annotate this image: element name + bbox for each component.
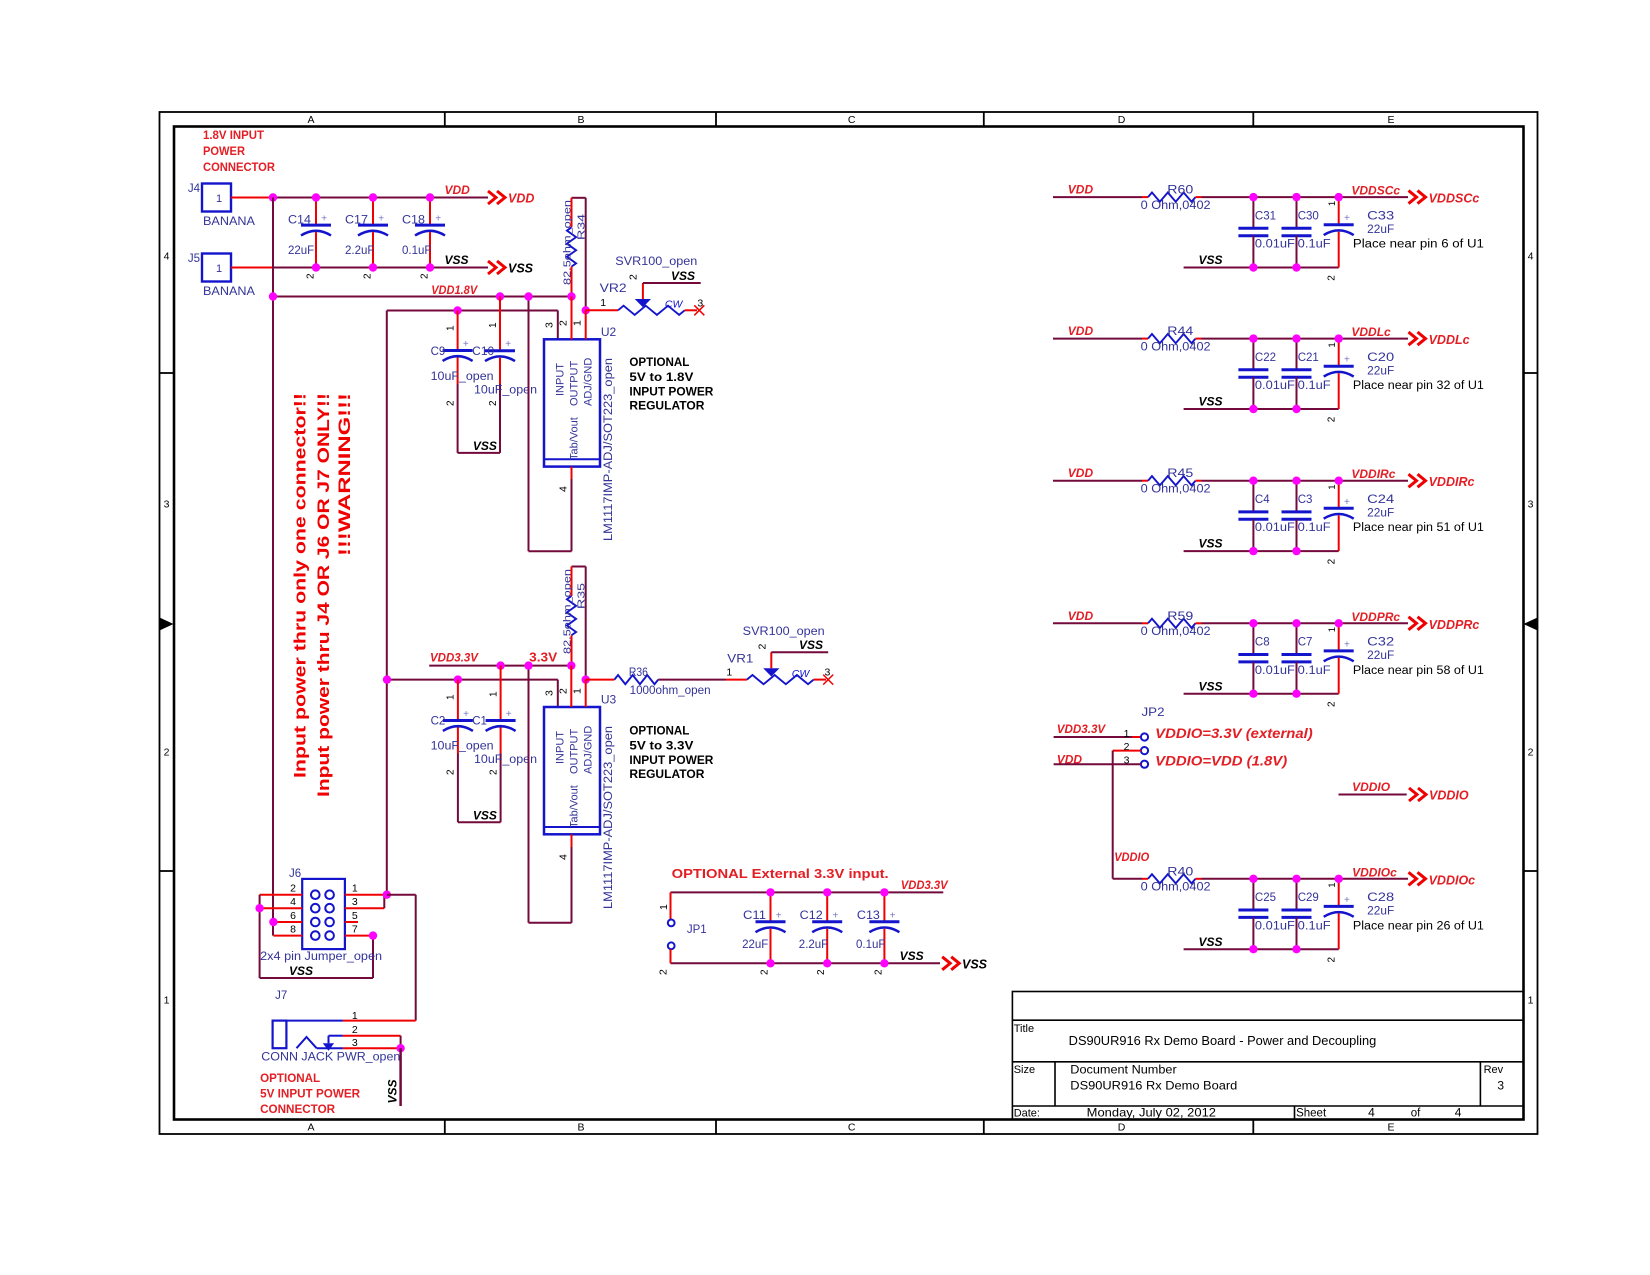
svg-text:Document Number: Document Number [1070, 1065, 1177, 1077]
svg-text:5: 5 [352, 910, 358, 922]
svg-text:1: 1 [352, 1010, 358, 1022]
svg-text:2: 2 [446, 769, 457, 775]
svg-text:1: 1 [726, 667, 732, 679]
svg-text:Rev: Rev [1484, 1064, 1504, 1076]
svg-text:+: + [776, 910, 782, 921]
svg-text:C31: C31 [1255, 210, 1276, 222]
svg-text:VR2: VR2 [600, 281, 627, 295]
svg-text:C11: C11 [743, 910, 766, 922]
svg-text:VDD: VDD [1068, 466, 1094, 480]
svg-text:1: 1 [1327, 201, 1338, 206]
svg-text:22uF: 22uF [1367, 365, 1394, 377]
svg-text:C12: C12 [800, 910, 823, 922]
svg-text:+: + [890, 910, 896, 921]
svg-text:82.5ohm_open: 82.5ohm_open [562, 569, 574, 654]
svg-text:0.01uF: 0.01uF [1255, 239, 1295, 251]
svg-text:B: B [577, 114, 584, 126]
svg-text:1: 1 [600, 297, 606, 309]
svg-text:SVR100_open: SVR100_open [615, 256, 697, 268]
svg-text:10uF_open: 10uF_open [431, 371, 494, 383]
svg-text:VDD3.3V: VDD3.3V [901, 878, 949, 892]
svg-text:1: 1 [1124, 728, 1130, 740]
svg-text:+: + [463, 709, 469, 720]
svg-text:2: 2 [488, 400, 499, 406]
svg-text:INPUT POWER: INPUT POWER [629, 387, 714, 399]
svg-text:VDDPRc: VDDPRc [1429, 618, 1480, 632]
svg-text:2x4 pin Jumper_open: 2x4 pin Jumper_open [260, 951, 382, 963]
svg-text:1.8V INPUT: 1.8V INPUT [203, 128, 265, 142]
svg-text:2.2uF: 2.2uF [799, 939, 828, 951]
svg-text:4: 4 [1455, 1106, 1462, 1120]
svg-text:Sheet: Sheet [1296, 1108, 1327, 1120]
svg-text:C32: C32 [1367, 637, 1394, 649]
svg-text:A: A [307, 114, 314, 126]
svg-text:!!!WARNING!!!: !!!WARNING!!! [336, 393, 354, 556]
svg-text:VDD: VDD [1068, 183, 1094, 197]
svg-text:22uF: 22uF [1367, 224, 1394, 236]
svg-text:VSS: VSS [799, 638, 823, 652]
svg-text:2: 2 [1528, 747, 1534, 759]
svg-text:VDDPRc: VDDPRc [1351, 610, 1400, 624]
svg-text:CONN JACK PWR_open: CONN JACK PWR_open [261, 1052, 400, 1064]
svg-text:1: 1 [1327, 627, 1338, 632]
svg-text:ADJ/GND: ADJ/GND [583, 358, 595, 406]
svg-text:0 Ohm,0402: 0 Ohm,0402 [1141, 341, 1211, 353]
svg-text:+: + [1344, 213, 1350, 224]
svg-text:5V to 3.3V: 5V to 3.3V [629, 741, 693, 753]
svg-text:VSS: VSS [1199, 679, 1223, 693]
svg-text:Input power thru J4 OR J6 OR J: Input power thru J4 OR J6 OR J7 ONLY!! [315, 393, 333, 797]
svg-text:U3: U3 [601, 693, 617, 707]
svg-text:VDD3.3V: VDD3.3V [430, 651, 479, 665]
svg-text:0.1uF: 0.1uF [856, 939, 885, 951]
svg-text:3: 3 [164, 499, 170, 511]
svg-text:OUTPUT: OUTPUT [569, 729, 581, 775]
svg-text:Place near pin 26 of U1: Place near pin 26 of U1 [1353, 920, 1484, 932]
svg-text:REGULATOR: REGULATOR [629, 401, 705, 413]
svg-text:VSS: VSS [473, 809, 497, 823]
svg-text:R34: R34 [576, 214, 588, 240]
svg-text:VDDIOc: VDDIOc [1352, 865, 1397, 879]
svg-text:C7: C7 [1298, 637, 1313, 649]
svg-text:C9: C9 [431, 346, 446, 358]
svg-text:+: + [321, 214, 327, 225]
svg-text:1: 1 [572, 320, 584, 326]
svg-text:Tab/Vout: Tab/Vout [569, 785, 581, 828]
svg-text:B: B [577, 1122, 584, 1134]
svg-text:0.1uF: 0.1uF [1298, 239, 1331, 251]
svg-text:2: 2 [1327, 275, 1338, 281]
svg-text:0.01uF: 0.01uF [1255, 665, 1295, 677]
svg-text:VDDLc: VDDLc [1429, 333, 1470, 347]
svg-text:2: 2 [352, 1024, 358, 1036]
svg-text:Date:: Date: [1014, 1108, 1040, 1120]
svg-text:C10: C10 [472, 346, 494, 358]
svg-text:OPTIONAL: OPTIONAL [629, 357, 689, 369]
svg-text:+: + [1344, 639, 1350, 650]
svg-text:C29: C29 [1298, 892, 1319, 904]
svg-text:C2: C2 [431, 716, 446, 728]
svg-text:J6: J6 [289, 868, 301, 880]
svg-text:VSS: VSS [1199, 935, 1223, 949]
svg-text:2: 2 [306, 273, 317, 279]
svg-text:C14: C14 [288, 215, 312, 227]
svg-text:1: 1 [164, 995, 170, 1007]
svg-text:VDDIO: VDDIO [1114, 850, 1150, 864]
svg-text:VDD1.8V: VDD1.8V [431, 283, 478, 297]
svg-text:Title: Title [1014, 1023, 1034, 1035]
svg-text:SVR100_open: SVR100_open [743, 626, 825, 638]
svg-text:D: D [1118, 114, 1126, 126]
svg-text:VSS: VSS [289, 964, 313, 978]
svg-text:INPUT: INPUT [555, 363, 567, 396]
svg-text:3: 3 [1528, 499, 1534, 511]
svg-text:+: + [463, 339, 469, 350]
svg-text:7: 7 [352, 923, 358, 935]
svg-text:BANANA: BANANA [203, 286, 255, 298]
svg-text:VDD: VDD [508, 192, 534, 206]
svg-text:VSS: VSS [962, 958, 988, 972]
svg-text:2: 2 [873, 969, 884, 975]
svg-text:OPTIONAL External 3.3V input.: OPTIONAL External 3.3V input. [672, 866, 889, 881]
svg-text:Size: Size [1014, 1064, 1035, 1076]
svg-text:VDDSCc: VDDSCc [1351, 184, 1400, 198]
svg-text:CW: CW [792, 668, 811, 680]
svg-text:VSS: VSS [900, 949, 924, 963]
svg-text:VSS: VSS [671, 269, 695, 283]
svg-text:VSS: VSS [508, 262, 534, 276]
svg-text:VDDIOc: VDDIOc [1429, 873, 1476, 887]
svg-text:0 Ohm,0402: 0 Ohm,0402 [1141, 882, 1211, 894]
svg-text:C28: C28 [1367, 892, 1394, 904]
svg-text:of: of [1411, 1108, 1421, 1120]
svg-text:+: + [506, 709, 512, 720]
svg-text:Place near pin 6 of U1: Place near pin 6 of U1 [1353, 239, 1484, 251]
svg-text:C13: C13 [857, 910, 880, 922]
svg-text:8: 8 [290, 923, 296, 935]
svg-text:+: + [505, 339, 511, 350]
svg-text:2: 2 [1124, 741, 1130, 753]
svg-text:0.01uF: 0.01uF [1255, 522, 1295, 534]
svg-text:0.1uF: 0.1uF [1298, 522, 1331, 534]
svg-text:0.01uF: 0.01uF [1255, 920, 1295, 932]
svg-text:82.5ohm_open: 82.5ohm_open [562, 200, 574, 285]
svg-text:+: + [1344, 895, 1350, 906]
svg-text:INPUT POWER: INPUT POWER [629, 755, 714, 767]
svg-text:VDDLc: VDDLc [1351, 325, 1391, 339]
svg-text:J5: J5 [188, 253, 200, 265]
svg-text:VDDIRc: VDDIRc [1351, 467, 1395, 481]
svg-text:VSS: VSS [386, 1079, 400, 1103]
svg-text:C25: C25 [1255, 892, 1276, 904]
svg-text:OUTPUT: OUTPUT [569, 361, 581, 407]
svg-text:VDDIO=3.3V (external): VDDIO=3.3V (external) [1155, 726, 1313, 741]
svg-text:C20: C20 [1367, 352, 1394, 364]
svg-text:VSS: VSS [1199, 537, 1223, 551]
svg-text:1: 1 [658, 904, 670, 910]
svg-text:+: + [1344, 355, 1350, 366]
svg-text:VDDIO: VDDIO [1352, 780, 1391, 794]
svg-text:2: 2 [816, 969, 827, 975]
svg-text:0.1uF: 0.1uF [1298, 665, 1331, 677]
svg-text:POWER: POWER [203, 144, 245, 158]
svg-text:Place near pin 32 of U1: Place near pin 32 of U1 [1353, 380, 1484, 392]
svg-text:VDD: VDD [445, 183, 471, 197]
svg-text:3: 3 [1124, 755, 1130, 767]
svg-text:Input power thru only one conn: Input power thru only one connector!! [292, 393, 310, 778]
svg-text:0.1uF: 0.1uF [1298, 920, 1331, 932]
svg-text:2: 2 [558, 688, 570, 694]
svg-text:1000ohm_open: 1000ohm_open [630, 685, 711, 697]
svg-text:Place near pin 58 of U1: Place near pin 58 of U1 [1353, 665, 1484, 677]
svg-text:1: 1 [446, 325, 457, 331]
svg-text:R60: R60 [1167, 185, 1193, 197]
svg-text:1: 1 [1327, 484, 1338, 489]
svg-text:C4: C4 [1255, 494, 1270, 506]
svg-text:R35: R35 [576, 583, 588, 609]
svg-text:22uF: 22uF [1367, 508, 1394, 520]
svg-text:2: 2 [628, 274, 640, 280]
svg-text:1: 1 [488, 322, 499, 328]
svg-text:2: 2 [658, 969, 670, 975]
svg-text:BANANA: BANANA [203, 216, 255, 228]
svg-text:2: 2 [489, 769, 500, 775]
svg-text:5V to 1.8V: 5V to 1.8V [629, 372, 693, 384]
svg-text:22uF: 22uF [1367, 650, 1394, 662]
svg-text:C: C [848, 114, 856, 126]
svg-text:VDDIO: VDDIO [1429, 789, 1469, 803]
svg-text:C3: C3 [1298, 494, 1313, 506]
svg-text:4: 4 [1368, 1106, 1375, 1120]
svg-text:22uF: 22uF [742, 939, 768, 951]
svg-text:1: 1 [216, 193, 222, 205]
svg-text:1: 1 [489, 691, 500, 697]
svg-text:1: 1 [352, 883, 358, 895]
svg-text:JP2: JP2 [1142, 707, 1165, 719]
svg-text:2: 2 [164, 747, 170, 759]
svg-text:VDDIO=VDD (1.8V): VDDIO=VDD (1.8V) [1155, 754, 1288, 769]
svg-text:22uF: 22uF [288, 245, 314, 257]
svg-text:10uF_open: 10uF_open [431, 741, 494, 753]
svg-text:3: 3 [352, 1037, 358, 1049]
svg-text:J4: J4 [188, 183, 201, 195]
svg-text:3: 3 [544, 690, 556, 696]
svg-text:JP1: JP1 [687, 924, 707, 936]
svg-text:Place near pin 51 of U1: Place near pin 51 of U1 [1353, 522, 1484, 534]
svg-text:1: 1 [216, 263, 222, 275]
svg-text:DS90UR916 Rx Demo Board: DS90UR916 Rx Demo Board [1070, 1079, 1237, 1093]
svg-text:C30: C30 [1298, 210, 1319, 222]
svg-text:6: 6 [290, 910, 296, 922]
svg-text:2: 2 [558, 320, 570, 326]
svg-text:C24: C24 [1367, 494, 1395, 506]
svg-text:C17: C17 [345, 215, 368, 227]
svg-text:0 Ohm,0402: 0 Ohm,0402 [1141, 484, 1211, 496]
svg-text:1: 1 [1327, 342, 1338, 347]
svg-text:VSS: VSS [1199, 253, 1223, 267]
svg-text:2: 2 [1327, 701, 1338, 707]
svg-text:INPUT: INPUT [555, 731, 567, 764]
svg-text:0.01uF: 0.01uF [1255, 380, 1295, 392]
svg-text:0 Ohm,0402: 0 Ohm,0402 [1141, 626, 1211, 638]
svg-text:1: 1 [446, 694, 457, 700]
svg-text:0.1uF: 0.1uF [1298, 380, 1331, 392]
svg-text:2: 2 [290, 883, 296, 895]
svg-text:VDD: VDD [1068, 324, 1094, 338]
svg-text:4: 4 [558, 486, 570, 492]
svg-text:+: + [378, 214, 384, 225]
svg-text:DS90UR916 Rx Demo Board - Powe: DS90UR916 Rx Demo Board - Power and Deco… [1069, 1034, 1377, 1048]
svg-text:OPTIONAL: OPTIONAL [260, 1071, 320, 1085]
svg-text:R36: R36 [629, 667, 648, 679]
svg-text:R59: R59 [1167, 611, 1193, 623]
svg-text:C8: C8 [1255, 637, 1270, 649]
svg-text:2: 2 [363, 273, 374, 279]
svg-text:1: 1 [1327, 883, 1338, 888]
svg-text:2: 2 [1327, 416, 1338, 422]
svg-text:4: 4 [164, 251, 170, 263]
svg-text:VDD: VDD [1068, 609, 1094, 623]
svg-text:4: 4 [290, 896, 296, 908]
svg-text:REGULATOR: REGULATOR [629, 769, 705, 781]
svg-text:3.3V: 3.3V [529, 651, 558, 665]
svg-text:3: 3 [697, 298, 703, 310]
svg-text:J7: J7 [275, 990, 287, 1002]
svg-text:1: 1 [1528, 995, 1534, 1007]
svg-text:VSS: VSS [1199, 395, 1223, 409]
svg-text:C: C [848, 1122, 856, 1134]
svg-text:LM1117IMP-ADJ/SOT223_open: LM1117IMP-ADJ/SOT223_open [603, 358, 615, 541]
svg-text:0 Ohm,0402: 0 Ohm,0402 [1141, 200, 1211, 212]
svg-text:C22: C22 [1255, 352, 1276, 364]
svg-text:U2: U2 [601, 325, 617, 339]
svg-text:C21: C21 [1298, 352, 1319, 364]
svg-text:2: 2 [446, 400, 457, 406]
svg-text:+: + [435, 214, 441, 225]
svg-text:LM1117IMP-ADJ/SOT223_open: LM1117IMP-ADJ/SOT223_open [603, 726, 615, 909]
svg-text:C1: C1 [472, 716, 487, 728]
svg-text:2: 2 [420, 273, 431, 279]
svg-text:2: 2 [1327, 558, 1338, 564]
svg-text:2: 2 [1327, 957, 1338, 963]
svg-text:5V INPUT POWER: 5V INPUT POWER [260, 1087, 360, 1101]
svg-text:+: + [832, 910, 838, 921]
svg-text:CW: CW [665, 299, 684, 311]
svg-text:VDDSCc: VDDSCc [1429, 192, 1480, 206]
svg-text:+: + [1344, 497, 1350, 508]
svg-text:ADJ/GND: ADJ/GND [583, 726, 595, 774]
svg-text:A: A [307, 1122, 314, 1134]
svg-text:VR1: VR1 [727, 652, 753, 666]
svg-text:4: 4 [1528, 251, 1534, 263]
svg-text:E: E [1387, 114, 1394, 126]
svg-text:CONNECTOR: CONNECTOR [260, 1102, 335, 1116]
svg-text:VDD3.3V: VDD3.3V [1057, 722, 1106, 736]
svg-text:R45: R45 [1167, 468, 1193, 480]
svg-text:2.2uF: 2.2uF [345, 245, 374, 257]
svg-text:22uF: 22uF [1367, 906, 1394, 918]
svg-text:CONNECTOR: CONNECTOR [203, 160, 275, 174]
svg-text:3: 3 [825, 667, 831, 679]
svg-text:C33: C33 [1367, 210, 1394, 222]
svg-text:3: 3 [1497, 1079, 1504, 1093]
svg-text:4: 4 [558, 854, 570, 860]
svg-text:R40: R40 [1167, 866, 1193, 878]
svg-text:VDDIRc: VDDIRc [1429, 475, 1475, 489]
svg-text:1: 1 [572, 688, 584, 694]
svg-text:VSS: VSS [445, 253, 469, 267]
svg-text:VSS: VSS [473, 439, 497, 453]
svg-text:E: E [1387, 1122, 1394, 1134]
svg-text:2: 2 [760, 969, 771, 975]
svg-text:OPTIONAL: OPTIONAL [629, 726, 689, 738]
svg-text:3: 3 [352, 896, 358, 908]
svg-text:D: D [1118, 1122, 1126, 1134]
svg-text:0.1uF: 0.1uF [402, 245, 431, 257]
svg-text:2: 2 [757, 644, 769, 650]
svg-text:3: 3 [544, 322, 556, 328]
svg-text:Monday, July 02, 2012: Monday, July 02, 2012 [1087, 1106, 1217, 1120]
svg-text:Tab/Vout: Tab/Vout [569, 417, 581, 460]
svg-text:R44: R44 [1167, 326, 1194, 338]
svg-text:C18: C18 [402, 215, 425, 227]
